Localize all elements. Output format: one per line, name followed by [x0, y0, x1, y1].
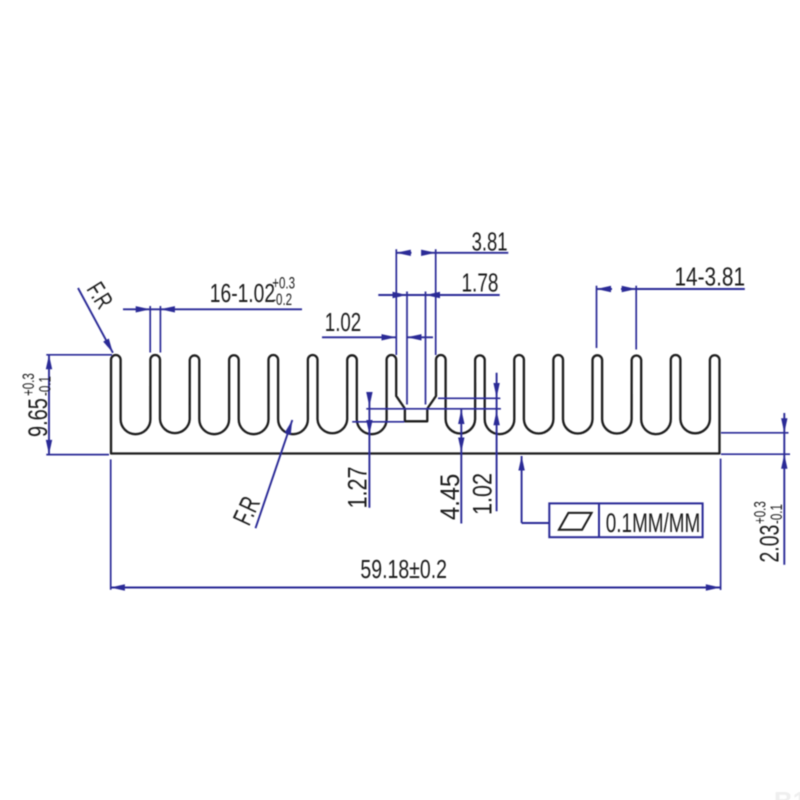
svg-text:14-3.81: 14-3.81 [675, 262, 746, 291]
svg-text:1.02: 1.02 [325, 307, 361, 337]
svg-text:B18C: B18C [774, 786, 800, 800]
svg-text:1.78: 1.78 [462, 268, 499, 298]
svg-text:0.1MM/MM: 0.1MM/MM [606, 508, 700, 538]
svg-text:-0.1: -0.1 [768, 504, 787, 524]
svg-text:2.03: 2.03 [754, 525, 784, 563]
svg-text:3.81: 3.81 [472, 227, 508, 256]
svg-text:1.02: 1.02 [468, 473, 498, 515]
svg-text:9.65: 9.65 [23, 398, 54, 437]
svg-text:1.27: 1.27 [343, 466, 373, 508]
svg-text:-0.1: -0.1 [36, 376, 55, 396]
svg-text:16-1.02: 16-1.02 [210, 278, 275, 308]
svg-text:-0.2: -0.2 [272, 291, 292, 310]
svg-text:59.18±0.2: 59.18±0.2 [360, 554, 447, 583]
svg-text:4.45: 4.45 [436, 474, 466, 520]
